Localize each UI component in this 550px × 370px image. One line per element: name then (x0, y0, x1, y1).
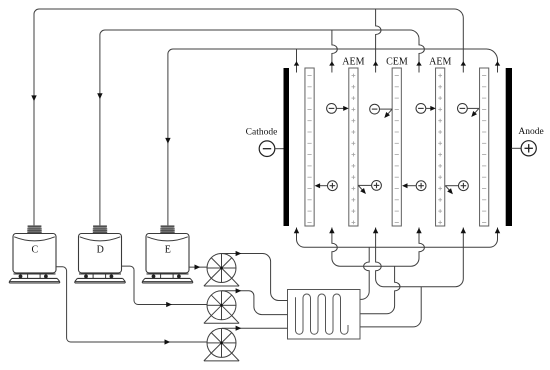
svg-text:Cathode: Cathode (246, 128, 278, 138)
svg-text:Anode: Anode (518, 127, 543, 137)
svg-text:E: E (165, 245, 171, 256)
svg-text:AEM: AEM (429, 57, 451, 68)
svg-text:C: C (31, 245, 38, 256)
svg-text:D: D (97, 245, 104, 256)
svg-text:CEM: CEM (386, 57, 408, 68)
svg-text:AEM: AEM (342, 57, 364, 68)
